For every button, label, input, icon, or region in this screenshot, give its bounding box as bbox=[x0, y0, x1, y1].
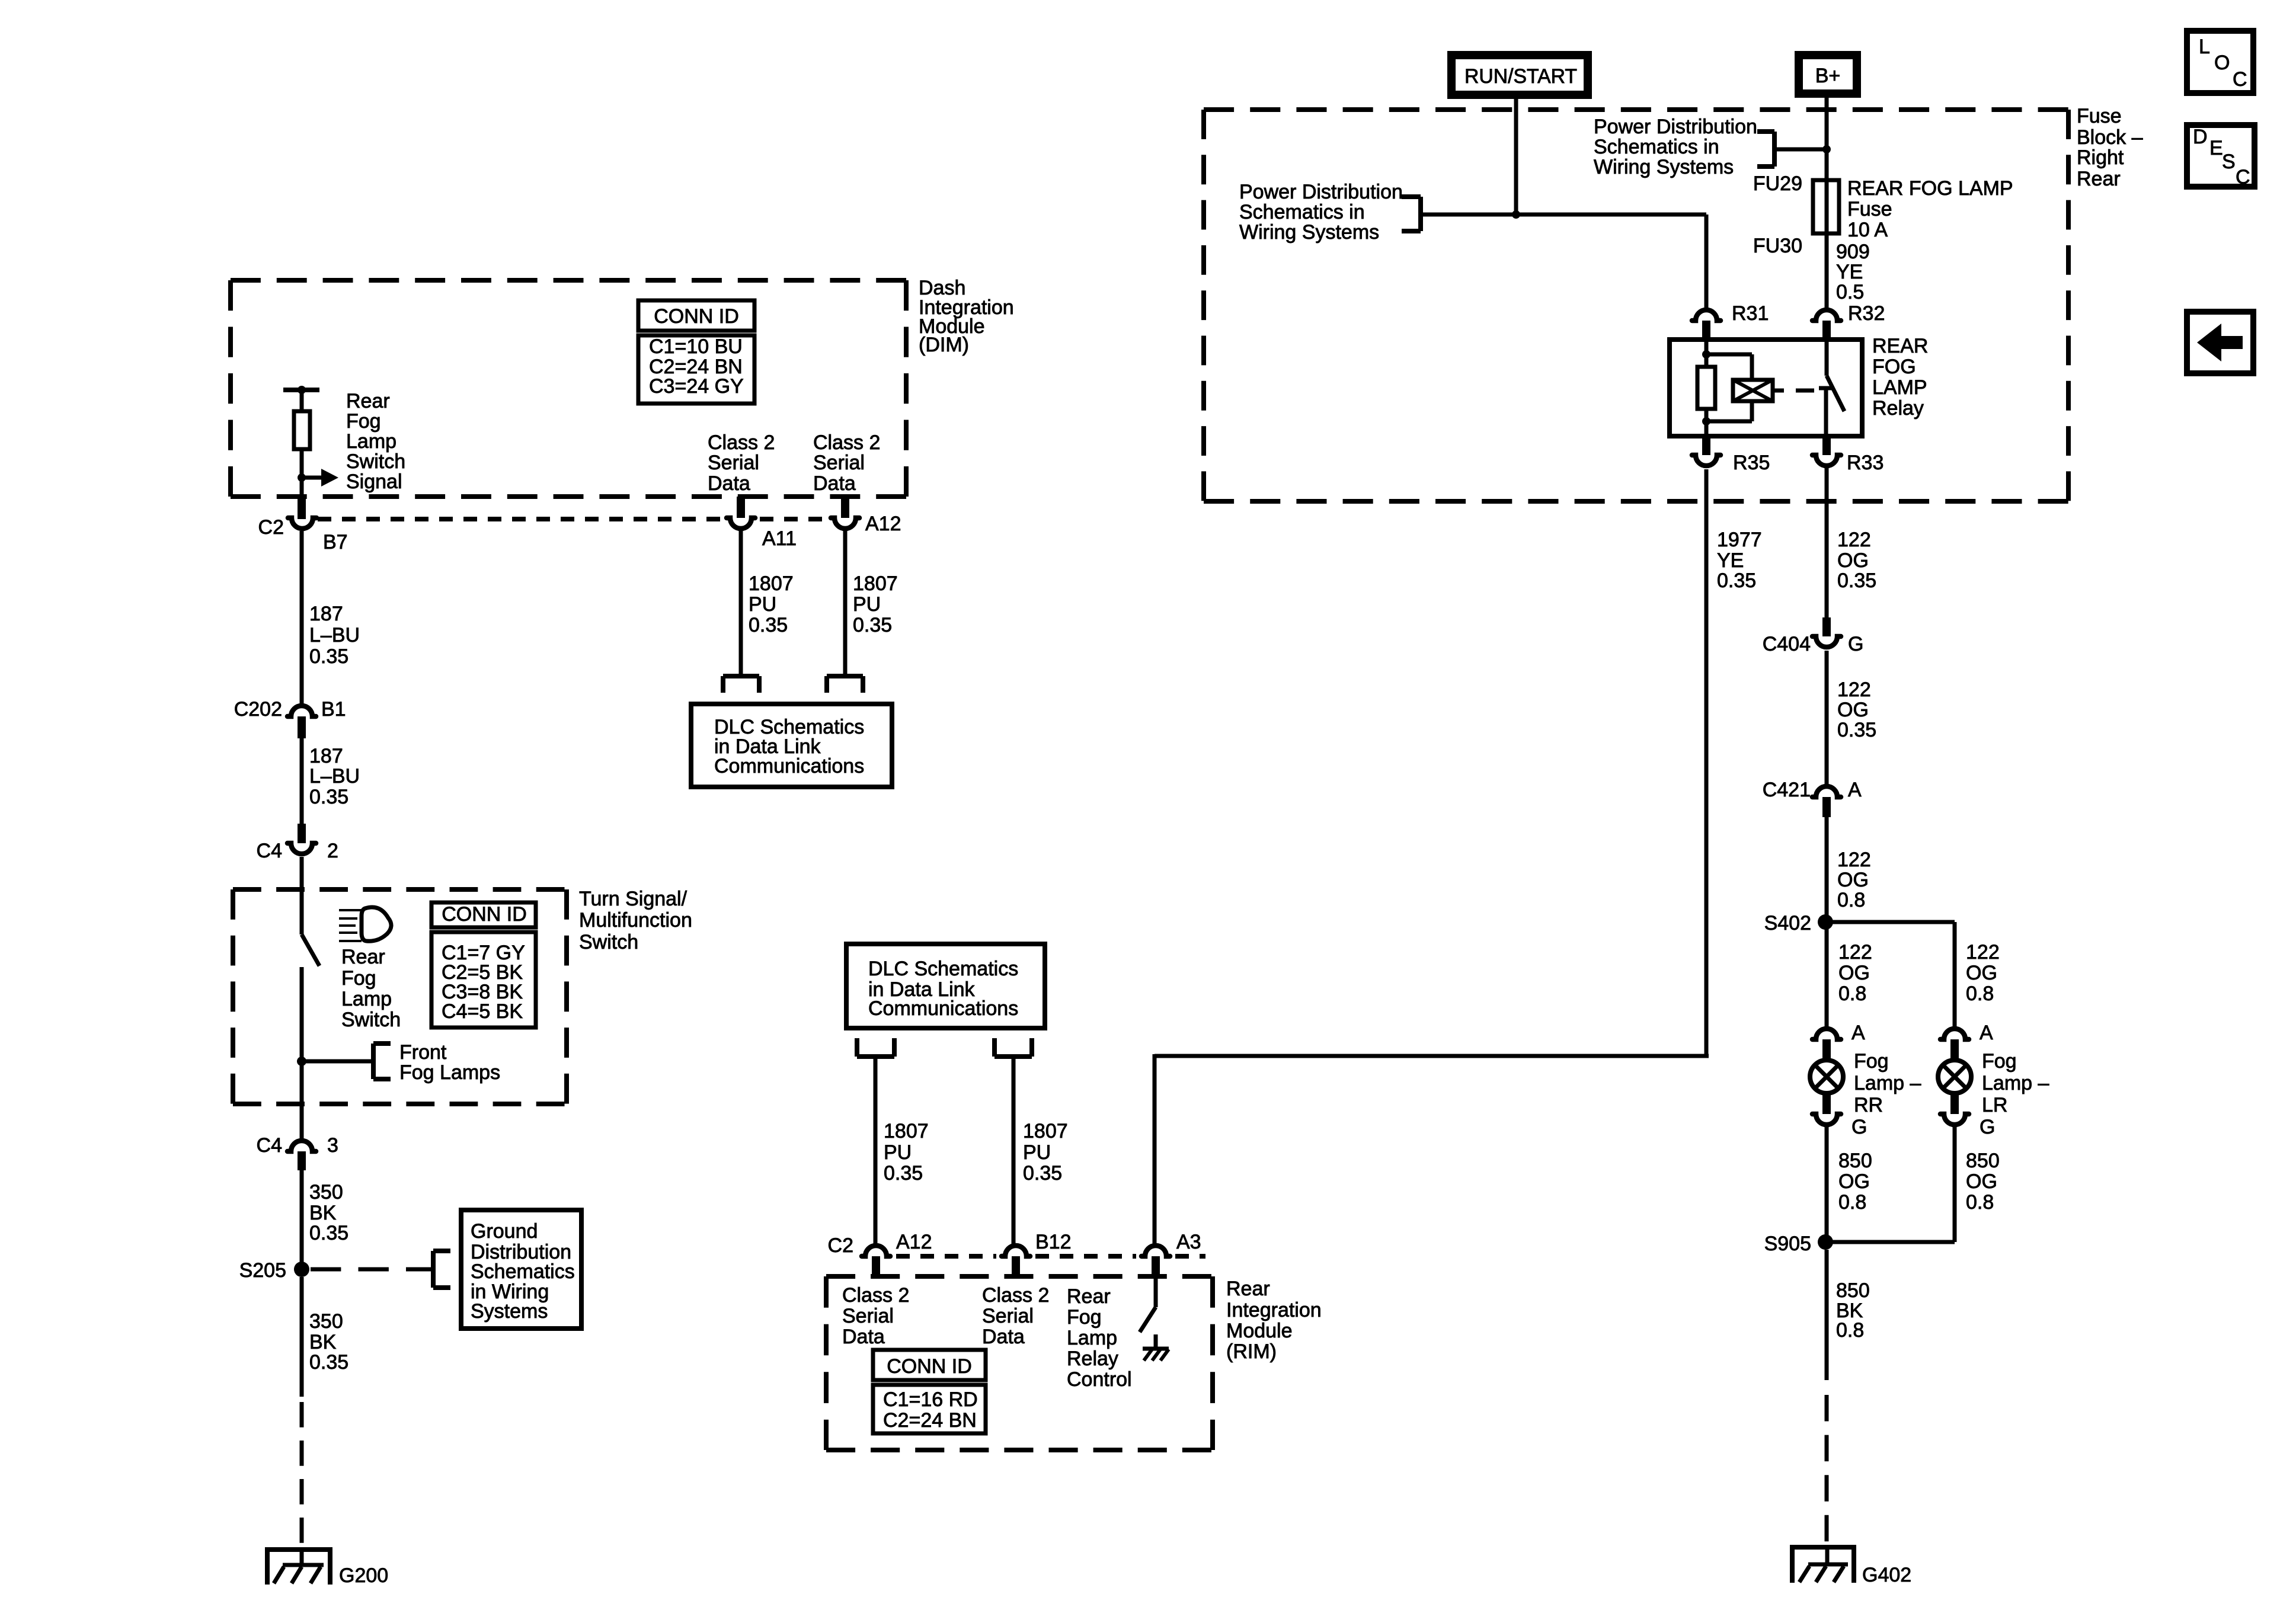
connector C4 pin 2 bbox=[298, 824, 306, 843]
svg-text:E: E bbox=[2209, 137, 2223, 159]
svg-text:CONN ID: CONN ID bbox=[654, 305, 739, 328]
wire 187 L-BU from C202 bbox=[300, 738, 304, 824]
wire bracket to B+ feed bbox=[1774, 148, 1827, 152]
icon LOC box bbox=[2187, 31, 2253, 93]
svg-text:Power Distribution: Power Distribution bbox=[1594, 116, 1757, 138]
svg-text:Lamp –: Lamp – bbox=[1854, 1072, 1921, 1094]
svg-text:O: O bbox=[2214, 52, 2230, 74]
wire dashed to G402 bbox=[1825, 1395, 1829, 1545]
svg-text:C2: C2 bbox=[258, 516, 284, 539]
svg-text:0.8: 0.8 bbox=[1836, 1319, 1864, 1342]
connector pin A of fog lamp LR bbox=[1940, 1029, 1969, 1039]
svg-text:R32: R32 bbox=[1848, 302, 1885, 325]
svg-text:BK: BK bbox=[309, 1331, 337, 1353]
connector pin R33 of fuse block bbox=[1822, 436, 1831, 455]
svg-text:Multifunction: Multifunction bbox=[579, 909, 692, 932]
svg-text:Integration: Integration bbox=[1226, 1299, 1322, 1321]
ground symbol inside RIM bbox=[1143, 1347, 1169, 1351]
wire S402 to RR lamp bbox=[1825, 922, 1829, 1026]
wire RUN/START ignition feed bbox=[1514, 99, 1518, 215]
svg-text:909: 909 bbox=[1836, 241, 1870, 263]
wire into multifunction switch bbox=[300, 857, 304, 934]
connector row dotted line (DIM C2) bbox=[318, 517, 723, 521]
svg-text:Fog: Fog bbox=[1067, 1306, 1102, 1329]
svg-text:Fog: Fog bbox=[1854, 1050, 1889, 1073]
svg-text:G200: G200 bbox=[339, 1564, 388, 1587]
resistor (switch signal pull-up) inside DIM bbox=[294, 411, 310, 449]
connector A11 pin of DIM bbox=[737, 497, 745, 518]
svg-text:Communications: Communications bbox=[714, 755, 864, 777]
wire 1807 PU to RIM C2-A12 bbox=[874, 1057, 878, 1244]
svg-text:0.35: 0.35 bbox=[309, 645, 348, 668]
wire 1807 PU from A12 bbox=[843, 531, 848, 676]
module box RIM (Rear Integration Module) dashed outline bbox=[826, 1274, 1213, 1279]
svg-text:Fog: Fog bbox=[346, 410, 381, 433]
svg-text:Relay: Relay bbox=[1067, 1347, 1118, 1370]
svg-text:G: G bbox=[1848, 633, 1863, 655]
svg-text:0.8: 0.8 bbox=[1966, 982, 1994, 1005]
svg-text:0.35: 0.35 bbox=[309, 786, 348, 808]
svg-text:G: G bbox=[1851, 1116, 1867, 1138]
svg-text:1807: 1807 bbox=[1023, 1120, 1068, 1142]
svg-text:Serial: Serial bbox=[982, 1305, 1034, 1327]
connector A12 pin of DIM bbox=[841, 498, 849, 518]
node RUN/START tap bbox=[1512, 210, 1520, 219]
wire 1807 PU to RIM B12 bbox=[1012, 1057, 1016, 1244]
module box DIM (Dash Integration Module) dashed outline bbox=[231, 278, 906, 283]
connector pin G of fog lamp LR bbox=[1950, 1094, 1959, 1114]
wire 122 OG C421 to S402 bbox=[1825, 817, 1829, 922]
svg-text:PU: PU bbox=[884, 1141, 912, 1164]
svg-text:Front: Front bbox=[399, 1041, 447, 1064]
svg-text:Rear: Rear bbox=[346, 390, 390, 412]
svg-text:LAMP: LAMP bbox=[1872, 376, 1927, 399]
lamp Fog Lamp - RR bbox=[1810, 1060, 1843, 1093]
svg-text:0.35: 0.35 bbox=[309, 1351, 348, 1374]
splice S402 bbox=[1818, 914, 1833, 930]
wire 187 L-BU from C2 B7 bbox=[300, 531, 304, 704]
svg-text:0.8: 0.8 bbox=[1837, 889, 1865, 911]
svg-text:0.8: 0.8 bbox=[1966, 1191, 1994, 1214]
svg-text:Rear: Rear bbox=[2077, 168, 2121, 190]
svg-text:Switch: Switch bbox=[341, 1009, 401, 1031]
svg-text:350: 350 bbox=[309, 1310, 343, 1333]
svg-text:0.5: 0.5 bbox=[1836, 281, 1864, 303]
icon DESC box bbox=[2187, 125, 2255, 187]
svg-text:0.35: 0.35 bbox=[309, 1222, 348, 1244]
svg-text:Ground: Ground bbox=[471, 1220, 538, 1243]
svg-text:PU: PU bbox=[853, 593, 881, 616]
svg-text:122: 122 bbox=[1966, 941, 2000, 964]
connector row dotted line (RIM) bbox=[896, 1254, 996, 1259]
svg-text:Signal: Signal bbox=[346, 470, 402, 493]
svg-text:Communications: Communications bbox=[868, 997, 1018, 1020]
svg-text:0.8: 0.8 bbox=[1838, 982, 1866, 1005]
svg-text:0.35: 0.35 bbox=[1837, 569, 1876, 592]
wire 850 OG from RR lamp bbox=[1825, 1127, 1829, 1242]
svg-text:A: A bbox=[1848, 779, 1862, 801]
bracket Front Fog Lamps bbox=[371, 1044, 376, 1079]
splice S205 bbox=[294, 1262, 309, 1277]
ground G200 bbox=[265, 1547, 332, 1552]
terminal staple A11 at DLC box bbox=[723, 674, 759, 678]
svg-text:C1=10 BU: C1=10 BU bbox=[649, 335, 743, 358]
wire to front fog lamps bracket bbox=[302, 1060, 373, 1064]
svg-text:0.35: 0.35 bbox=[1717, 569, 1756, 592]
svg-text:Control: Control bbox=[1067, 1368, 1132, 1391]
bracket ground distribution bbox=[431, 1251, 436, 1288]
svg-text:OG: OG bbox=[1966, 962, 1997, 984]
svg-text:Wiring Systems: Wiring Systems bbox=[1594, 156, 1734, 178]
svg-text:A3: A3 bbox=[1176, 1231, 1201, 1253]
svg-text:122: 122 bbox=[1837, 678, 1871, 701]
svg-text:A12: A12 bbox=[896, 1231, 932, 1253]
svg-text:S402: S402 bbox=[1764, 912, 1811, 934]
svg-text:Rear: Rear bbox=[1067, 1285, 1111, 1308]
svg-text:Data: Data bbox=[842, 1326, 885, 1348]
wire 122 OG C404 to C421 bbox=[1825, 651, 1829, 784]
svg-text:PU: PU bbox=[749, 593, 776, 616]
svg-text:FOG: FOG bbox=[1872, 356, 1916, 378]
svg-text:3: 3 bbox=[327, 1134, 338, 1157]
wire 850 OG from LR lamp bbox=[1953, 1127, 1957, 1242]
svg-text:G402: G402 bbox=[1862, 1564, 1911, 1586]
svg-text:REAR: REAR bbox=[1872, 335, 1928, 357]
svg-text:C202: C202 bbox=[234, 698, 282, 721]
svg-text:0.8: 0.8 bbox=[1838, 1191, 1866, 1214]
terminal staple below DLC (left) bbox=[855, 1038, 859, 1057]
svg-text:Turn Signal/: Turn Signal/ bbox=[579, 888, 687, 910]
svg-text:S905: S905 bbox=[1764, 1233, 1811, 1255]
svg-text:Lamp: Lamp bbox=[346, 430, 396, 453]
svg-text:850: 850 bbox=[1836, 1279, 1870, 1302]
resistor relay coil suppression bbox=[1697, 367, 1715, 409]
svg-text:OG: OG bbox=[1837, 699, 1869, 721]
svg-text:Switch: Switch bbox=[579, 931, 638, 953]
connector pin B12 of RIM bbox=[1002, 1246, 1030, 1256]
connector pin G of fog lamp RR bbox=[1822, 1094, 1831, 1114]
svg-text:FU30: FU30 bbox=[1753, 235, 1802, 257]
svg-text:REAR FOG LAMP: REAR FOG LAMP bbox=[1847, 177, 2013, 200]
svg-text:10 A: 10 A bbox=[1847, 219, 1888, 241]
terminal staple below DLC (right) bbox=[992, 1038, 997, 1057]
svg-text:C2=24 BN: C2=24 BN bbox=[883, 1409, 977, 1432]
wire coil loop bbox=[1706, 353, 1752, 357]
wire 850 BK below S905 bbox=[1825, 1250, 1829, 1380]
icon back-arrow box bbox=[2187, 312, 2253, 373]
svg-text:S205: S205 bbox=[239, 1259, 286, 1282]
connector pin R31 of fuse block bbox=[1692, 310, 1721, 321]
svg-text:Class 2: Class 2 bbox=[842, 1284, 909, 1307]
wire 350 BK to S205 bbox=[300, 1170, 304, 1269]
relay coil crossed-box bbox=[1733, 380, 1773, 401]
svg-text:Power Distribution: Power Distribution bbox=[1239, 181, 1403, 203]
svg-text:Lamp: Lamp bbox=[341, 988, 392, 1010]
fuse FU29/FU30 REAR FOG LAMP 10A bbox=[1813, 180, 1839, 233]
svg-text:OG: OG bbox=[1837, 869, 1869, 891]
svg-text:Module: Module bbox=[1226, 1320, 1293, 1342]
wire relay coil branch bbox=[1705, 340, 1709, 436]
wire 1807 PU from A11 bbox=[739, 531, 743, 676]
table CONN ID (DIM) bbox=[638, 300, 754, 331]
svg-text:Class 2: Class 2 bbox=[708, 431, 775, 454]
svg-text:Data: Data bbox=[708, 472, 750, 495]
svg-text:YE: YE bbox=[1717, 549, 1744, 572]
svg-text:OG: OG bbox=[1966, 1170, 1997, 1193]
connector pin A of fog lamp RR bbox=[1812, 1029, 1841, 1039]
svg-text:DLC Schematics: DLC Schematics bbox=[868, 958, 1018, 980]
svg-text:B+: B+ bbox=[1815, 65, 1841, 87]
svg-text:0.35: 0.35 bbox=[853, 614, 892, 636]
ground G402 bbox=[1790, 1545, 1856, 1550]
wire down to R31 bbox=[1705, 215, 1709, 308]
svg-text:C421: C421 bbox=[1763, 779, 1811, 801]
svg-text:Lamp –: Lamp – bbox=[1982, 1072, 2049, 1094]
svg-text:850: 850 bbox=[1838, 1150, 1872, 1172]
svg-text:R35: R35 bbox=[1733, 452, 1770, 474]
svg-text:Class 2: Class 2 bbox=[982, 1284, 1049, 1307]
svg-text:C1=16 RD: C1=16 RD bbox=[883, 1388, 978, 1411]
svg-text:Fog: Fog bbox=[1982, 1050, 2017, 1073]
node front fog lamps tap bbox=[297, 1057, 306, 1066]
svg-text:Block –: Block – bbox=[2077, 126, 2143, 149]
svg-text:OG: OG bbox=[1838, 1170, 1870, 1193]
svg-text:Fuse: Fuse bbox=[2077, 105, 2122, 127]
wire dashed S205 to ground distribution bbox=[311, 1267, 433, 1272]
module box Fuse Block - Right Rear dashed outline bbox=[1204, 107, 2068, 112]
wire 1977 YE from R35 to RIM A3 bbox=[1705, 469, 1709, 1056]
svg-text:C4=5 BK: C4=5 BK bbox=[442, 1000, 523, 1023]
svg-text:C2: C2 bbox=[828, 1234, 853, 1257]
svg-text:Rear: Rear bbox=[1226, 1278, 1270, 1300]
svg-text:RUN/START: RUN/START bbox=[1464, 65, 1577, 88]
switch SW1 rear fog lamp switch blade bbox=[302, 934, 319, 966]
svg-text:Rear: Rear bbox=[341, 946, 385, 968]
svg-text:Schematics in: Schematics in bbox=[1239, 201, 1365, 223]
svg-text:OG: OG bbox=[1837, 549, 1869, 572]
svg-text:0.35: 0.35 bbox=[1023, 1162, 1062, 1185]
svg-text:122: 122 bbox=[1837, 849, 1871, 871]
svg-text:122: 122 bbox=[1837, 529, 1871, 551]
svg-text:(DIM): (DIM) bbox=[919, 334, 969, 356]
connector C202 pin B1 bbox=[287, 706, 316, 716]
svg-text:A: A bbox=[1980, 1022, 1993, 1044]
svg-text:Serial: Serial bbox=[708, 452, 759, 474]
svg-text:Right: Right bbox=[2077, 146, 2124, 169]
bracket power distribution (RUN/START) bbox=[1418, 197, 1423, 231]
svg-text:1807: 1807 bbox=[749, 572, 794, 595]
node coil top bbox=[1702, 350, 1710, 359]
node - switch signal junction bbox=[298, 473, 306, 482]
headlamp icon bbox=[339, 909, 362, 911]
wire branch S402 to LR lamp bbox=[1825, 920, 1955, 924]
wire switch to C4 pin 3 bbox=[300, 967, 304, 1139]
svg-text:187: 187 bbox=[309, 745, 343, 767]
svg-text:L–BU: L–BU bbox=[309, 624, 360, 646]
svg-text:S: S bbox=[2222, 151, 2236, 173]
box DLC Schematics in Data Link Communications (top) bbox=[691, 704, 892, 787]
svg-text:Class 2: Class 2 bbox=[813, 431, 880, 454]
svg-text:LR: LR bbox=[1982, 1094, 2007, 1116]
wire coil actuation dashes bbox=[1773, 389, 1784, 393]
svg-text:187: 187 bbox=[309, 603, 343, 625]
svg-text:Serial: Serial bbox=[813, 452, 865, 474]
svg-text:350: 350 bbox=[309, 1181, 343, 1204]
svg-text:BK: BK bbox=[309, 1202, 337, 1224]
table CONN ID (RIM) bbox=[873, 1350, 986, 1380]
svg-text:0.35: 0.35 bbox=[884, 1162, 923, 1185]
svg-text:FU29: FU29 bbox=[1753, 172, 1802, 195]
table CONN ID (Turn Signal switch) bbox=[431, 902, 536, 927]
switch relay control driver in RIM bbox=[1154, 1275, 1158, 1307]
svg-text:Wiring Systems: Wiring Systems bbox=[1239, 221, 1379, 244]
wire - resistor to node bbox=[300, 449, 304, 501]
svg-text:Fog: Fog bbox=[341, 967, 376, 990]
box DLC Schematics in Data Link Communications (lower) bbox=[846, 944, 1045, 1028]
svg-text:Data: Data bbox=[813, 472, 856, 495]
svg-text:Serial: Serial bbox=[842, 1305, 894, 1327]
arrow - switch signal output bbox=[302, 476, 322, 480]
svg-text:Fuse: Fuse bbox=[1847, 198, 1892, 220]
wire 350 BK below S205 bbox=[300, 1277, 304, 1397]
splice S905 bbox=[1818, 1234, 1833, 1250]
svg-text:L–BU: L–BU bbox=[309, 765, 360, 788]
svg-text:RR: RR bbox=[1854, 1094, 1883, 1116]
svg-text:1807: 1807 bbox=[853, 572, 898, 595]
svg-text:Fog Lamps: Fog Lamps bbox=[399, 1061, 500, 1084]
svg-text:C3=24 GY: C3=24 GY bbox=[649, 375, 744, 398]
svg-text:R31: R31 bbox=[1732, 302, 1769, 325]
net RUN/START feed box bbox=[1451, 55, 1588, 95]
lamp Fog Lamp - LR bbox=[1938, 1060, 1971, 1093]
svg-text:L: L bbox=[2199, 36, 2210, 58]
svg-text:C4: C4 bbox=[257, 1134, 282, 1157]
svg-text:1807: 1807 bbox=[884, 1120, 929, 1142]
svg-text:Relay: Relay bbox=[1872, 397, 1924, 420]
switch relay contact bbox=[1825, 340, 1829, 376]
module box Turn Signal/Multifunction Switch dashed outline bbox=[233, 887, 567, 892]
svg-text:A12: A12 bbox=[865, 513, 901, 535]
box Ground Distribution Schematics in Wiring Systems bbox=[461, 1210, 581, 1329]
svg-text:PU: PU bbox=[1023, 1141, 1051, 1164]
svg-text:Data: Data bbox=[982, 1326, 1025, 1348]
wire 122 OG from R33 bbox=[1825, 468, 1829, 617]
node B+ tap bbox=[1822, 145, 1831, 153]
svg-text:Schematics: Schematics bbox=[471, 1260, 575, 1283]
svg-text:G: G bbox=[1980, 1116, 1995, 1138]
svg-text:R33: R33 bbox=[1847, 452, 1884, 474]
svg-text:CONN ID: CONN ID bbox=[442, 903, 527, 926]
net B+ feed box bbox=[1799, 55, 1857, 94]
wire B+ battery feed bbox=[1825, 98, 1829, 308]
wire bracket to relay R31 bbox=[1421, 213, 1706, 217]
svg-text:Switch: Switch bbox=[346, 450, 405, 473]
svg-text:1977: 1977 bbox=[1717, 529, 1762, 551]
node coil bottom bbox=[1702, 417, 1710, 425]
svg-text:OG: OG bbox=[1838, 962, 1870, 984]
svg-text:Systems: Systems bbox=[471, 1300, 548, 1323]
svg-text:2: 2 bbox=[327, 840, 338, 862]
svg-text:122: 122 bbox=[1838, 941, 1872, 964]
connector C2 pin A12 of RIM bbox=[862, 1246, 890, 1256]
connector pin A3 of RIM bbox=[1141, 1246, 1170, 1256]
svg-text:B12: B12 bbox=[1035, 1231, 1072, 1253]
svg-text:Lamp: Lamp bbox=[1067, 1327, 1117, 1349]
connector C2 pin B7 of DIM bbox=[298, 499, 306, 519]
wire - switch signal pullup top bbox=[300, 390, 304, 411]
svg-text:B7: B7 bbox=[323, 531, 348, 553]
svg-text:Schematics in: Schematics in bbox=[1594, 136, 1719, 158]
svg-text:A: A bbox=[1851, 1022, 1865, 1044]
connector C4 pin 3 bbox=[287, 1141, 316, 1151]
bracket power distribution (B+) bbox=[1772, 132, 1777, 167]
svg-text:850: 850 bbox=[1966, 1150, 2000, 1172]
svg-text:A11: A11 bbox=[762, 527, 797, 550]
svg-text:0.35: 0.35 bbox=[749, 614, 788, 636]
connector C404 pin G bbox=[1822, 617, 1831, 636]
svg-text:D: D bbox=[2193, 126, 2208, 148]
svg-text:C: C bbox=[2233, 68, 2247, 91]
rear fog lamp switch signal: T-bar terminal bbox=[283, 388, 319, 392]
connector pin R35 of fuse block bbox=[1702, 436, 1710, 455]
svg-text:YE: YE bbox=[1836, 261, 1863, 283]
svg-text:C: C bbox=[2236, 166, 2250, 188]
wire dashed to G200 bbox=[300, 1402, 304, 1547]
svg-text:(RIM): (RIM) bbox=[1226, 1340, 1277, 1363]
svg-text:C404: C404 bbox=[1763, 633, 1811, 655]
relay K1 REAR FOG LAMP Relay box bbox=[1670, 340, 1862, 436]
svg-text:0.35: 0.35 bbox=[1837, 719, 1876, 741]
connector C421 pin A bbox=[1812, 786, 1841, 797]
svg-text:B1: B1 bbox=[321, 698, 346, 721]
connector pin R32 of fuse block bbox=[1812, 310, 1841, 321]
svg-text:C4: C4 bbox=[257, 840, 282, 862]
terminal staple A12 at DLC box bbox=[827, 674, 863, 678]
svg-text:CONN ID: CONN ID bbox=[887, 1355, 972, 1378]
